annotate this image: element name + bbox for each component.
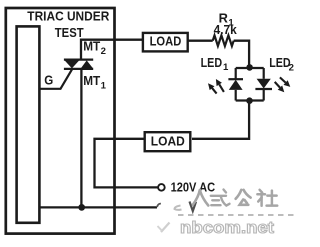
svg-text:nbcom.net: nbcom.net — [180, 219, 275, 237]
LED1 emission arrow b — [219, 84, 224, 92]
watermark char 1 (ru) — [193, 190, 209, 206]
triac bottom bar MT1 — [64, 68, 93, 70]
LED2 branch wire lower — [263, 89, 265, 101]
svg-text:LED: LED — [201, 55, 223, 70]
LED2 cathode bar — [255, 88, 272, 90]
LED1 branch wire upper — [235, 68, 237, 79]
triac left triangle (points down) — [65, 60, 80, 68]
wire MT1 down to junction — [80, 69, 82, 208]
svg-text:4.7k: 4.7k — [214, 22, 238, 37]
watermark curl — [175, 206, 182, 210]
wire LED bottom to LOAD2 — [192, 101, 249, 139]
LED1 branch wire lower — [235, 90, 237, 101]
node junction dot MT1/bottom wire — [78, 204, 85, 211]
LED bridge bottom bar — [236, 99, 264, 101]
svg-text:1: 1 — [101, 80, 107, 91]
gate wire G — [40, 69, 72, 89]
svg-text:2: 2 — [101, 46, 106, 57]
LOAD box 1 — [143, 33, 188, 52]
svg-text:LOAD: LOAD — [151, 133, 185, 148]
svg-text:TRIAC UNDER: TRIAC UNDER — [27, 8, 109, 23]
svg-text:2: 2 — [289, 63, 294, 74]
wire LOAD2 left to AC terminal — [95, 139, 158, 188]
test socket inner rectangle — [17, 26, 40, 222]
wire LOAD1 to resistor — [188, 40, 213, 42]
svg-text:LOAD: LOAD — [150, 34, 182, 49]
svg-text:G: G — [44, 72, 53, 87]
watermark slash — [161, 223, 170, 233]
svg-text:120V AC: 120V AC — [171, 180, 216, 195]
AC terminal 2 (faded partial arc) — [157, 204, 161, 208]
AC terminal 1 — [158, 184, 165, 191]
TRIAC test fixture outer box — [6, 8, 115, 234]
watermark char 4 (she) — [257, 190, 277, 206]
watermark char 3 (gong) — [236, 190, 251, 205]
node bottom junction dot — [246, 97, 253, 104]
triac right triangle (points up) — [81, 60, 93, 68]
svg-text:MT: MT — [83, 73, 100, 88]
LED2 emission arrow a — [280, 77, 286, 82]
LOAD box 2 — [145, 132, 191, 151]
LED2 triangle (points down) — [257, 79, 271, 89]
LED1 triangle (points up) — [229, 80, 243, 90]
watermark char 2 (shi) — [211, 190, 230, 206]
svg-text:TEST: TEST — [55, 25, 84, 40]
triac Q1 top bar MT2 — [64, 58, 93, 60]
svg-text:MT: MT — [83, 39, 100, 54]
node top junction dot — [246, 64, 253, 71]
LED2 emission arrow b — [275, 82, 280, 88]
wire resistor to LED top — [234, 41, 249, 67]
LED1 emission arrow a — [212, 88, 217, 94]
LED2 branch wire upper — [263, 68, 265, 79]
svg-text:LED: LED — [269, 55, 291, 70]
wire socket to bottom AC terminal — [39, 206, 157, 208]
watermark dashed underline — [178, 214, 295, 216]
wire MT2 to LOAD1 — [81, 40, 143, 60]
resistor R1 zigzag — [213, 35, 234, 46]
LED bridge top bar — [236, 67, 264, 69]
LED1 cathode bar — [228, 78, 243, 80]
svg-text:1: 1 — [223, 62, 229, 73]
watermark stroke remnant V — [190, 202, 197, 212]
